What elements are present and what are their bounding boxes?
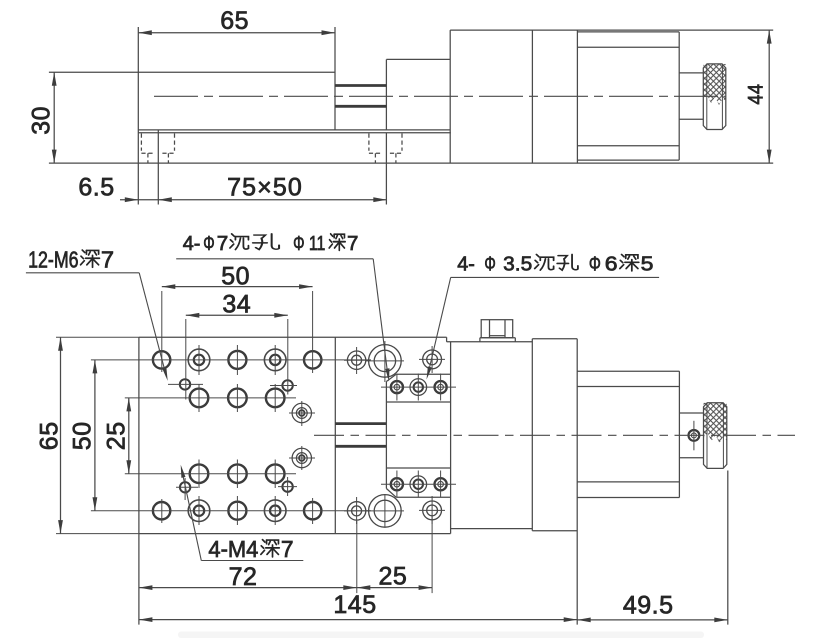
side view: mid block top edge [386, 58, 450, 60]
svg-text:30: 30 [27, 106, 55, 135]
plan view: phi3.5 counterbored holes bottom [391, 478, 403, 490]
svg-text:7: 7 [217, 232, 229, 255]
plan view: plate top edge [139, 336, 447, 338]
plan view: body top edge [447, 341, 533, 343]
plan view: dim line 34 [186, 314, 288, 316]
svg-text:49.5: 49.5 [623, 592, 674, 620]
plan view: shaft neck [679, 412, 703, 414]
side view: mid block left edge + 75x50 extension [385, 59, 387, 129]
plan view: dim 49.5 extension at knob [727, 471, 729, 625]
plan view: dim 25 extensions [356, 521, 358, 593]
svg-text:6.5: 6.5 [78, 173, 114, 201]
side view: table bottom / base plate top [138, 129, 450, 131]
svg-text:44: 44 [745, 84, 768, 105]
plan view: hole column centerlines [161, 291, 163, 372]
plan view: M6 tapped holes row4 [153, 502, 170, 519]
plan view: dim line 72 and 25 [139, 587, 432, 589]
svg-text:65: 65 [35, 421, 63, 450]
plan view: barrel outline [577, 370, 679, 372]
plan view: dim line 50 vertical [94, 360, 96, 511]
side view: body-section divider [531, 30, 533, 163]
side view: dim 65 extension right / table right edge [334, 27, 336, 130]
svg-text:65: 65 [220, 7, 249, 35]
plan view: M4 tapped holes [180, 379, 190, 389]
svg-text:12-M6: 12-M6 [28, 246, 79, 272]
plan view: hole row centerlines [91, 359, 371, 361]
svg-text:7: 7 [347, 232, 358, 255]
svg-text:145: 145 [333, 591, 376, 619]
plan view: dim line 145 and 49.5 [139, 619, 577, 621]
svg-text:25: 25 [378, 562, 407, 590]
plan view: dim line 50 horizontal [162, 286, 313, 288]
plan view: M4 hole centerlines + dim 34 extensions [185, 319, 187, 400]
svg-text:Φ: Φ [589, 253, 601, 276]
plan view: section 2 outline + dim extension [532, 338, 577, 340]
svg-text:7: 7 [101, 246, 114, 272]
side view: section 2 right edge [576, 30, 578, 163]
side view: main centerline [154, 95, 726, 97]
side view: table top edge + dim 30 extension [49, 71, 335, 73]
plan view: step at body joint [446, 337, 448, 342]
plan view: counterbored holes phi7/phi11 row1 [188, 349, 210, 371]
side view: dim line 65 [138, 32, 335, 34]
plan view: leadscrew bars [335, 422, 386, 425]
plan view: body bottom edge [451, 528, 533, 530]
side view: knob knurl crosshatch [703, 64, 726, 109]
svg-text:25: 25 [102, 421, 130, 450]
plan view: base holes top row [347, 351, 365, 369]
svg-text:50: 50 [69, 421, 97, 450]
side view: dim line 44 [768, 30, 770, 163]
plan view: M6 tapped holes row3 [190, 464, 209, 483]
plan view: connector box [481, 320, 513, 338]
plan view: dim line 65 [60, 337, 62, 533]
footer shadow bar [178, 632, 704, 639]
plan view: bracket bottom rectangle [396, 496, 450, 498]
plan view: body left edge [450, 342, 452, 534]
svg-text:7: 7 [281, 536, 294, 562]
plan view: plate bottom edge [139, 533, 451, 535]
svg-text:Φ: Φ [484, 253, 495, 276]
side view: T-slot hidden lines group 1 [140, 134, 142, 151]
side view: base plate lower line [138, 132, 451, 134]
plan view: bracket top rectangle [396, 373, 450, 375]
plan view: M6 tapped holes row1 [153, 351, 170, 368]
side view: dim 6.5 extension [157, 130, 159, 205]
plan view: bracket left edge with chamfers [385, 382, 387, 489]
svg-text:6: 6 [605, 253, 618, 276]
side view: T-slot hidden lines group 2 [368, 134, 370, 151]
svg-text:4-: 4- [183, 232, 201, 255]
svg-text:75×50: 75×50 [227, 173, 303, 201]
side view: leadscrew bars [335, 84, 386, 87]
svg-text:5: 5 [641, 253, 654, 276]
svg-text:Φ: Φ [203, 232, 214, 255]
plan view: counterbored holes phi7/phi11 row4 [188, 500, 210, 522]
plan view: center pair holes [292, 403, 311, 422]
side view: bottom baseline + extensions [49, 162, 773, 164]
side view: shaft neck [679, 72, 703, 74]
plan view: base holes bottom row [347, 502, 365, 520]
svg-text:4-M4: 4-M4 [208, 536, 258, 562]
side view: barrel outline [577, 31, 679, 33]
plan view: table right edge [334, 337, 336, 533]
side view: knurled knob outline [703, 64, 726, 130]
plan view: dim 65 extensions [56, 336, 139, 338]
svg-text:11: 11 [309, 232, 326, 255]
plan view: set screw [689, 430, 700, 441]
side view: body top edge + dim 44 extension [450, 29, 773, 31]
plan view: phi3.5 counterbored holes top [391, 381, 403, 393]
side view: dim 65 extension left (table left edge) [137, 27, 139, 205]
plan view: plate left edge + dim extension [138, 337, 140, 624]
plan view: center pair hole centerlines [301, 401, 303, 426]
svg-text:50: 50 [221, 262, 250, 290]
side view: body left edge [449, 30, 451, 163]
side view: dim line 30 [53, 72, 55, 163]
plan view: knurled knob outline [704, 403, 727, 469]
svg-text:72: 72 [229, 563, 258, 591]
plan view: M6 tapped holes row2 [190, 389, 209, 408]
plan view: knob knurl crosshatch [704, 403, 727, 448]
plan view: body-section divider [531, 339, 533, 531]
svg-text:4-: 4- [457, 253, 475, 276]
svg-text:3.5: 3.5 [503, 253, 532, 276]
plan view: base hole centerlines [356, 347, 358, 374]
plan view: dim line 25 vertical [128, 398, 130, 474]
svg-text:34: 34 [222, 290, 251, 318]
plan view: bracket hole centerlines [381, 386, 456, 388]
svg-text:Φ: Φ [293, 232, 304, 255]
side view: dim line 6.5 and 75x50 [120, 199, 387, 201]
plan view: main centerline [314, 434, 795, 436]
